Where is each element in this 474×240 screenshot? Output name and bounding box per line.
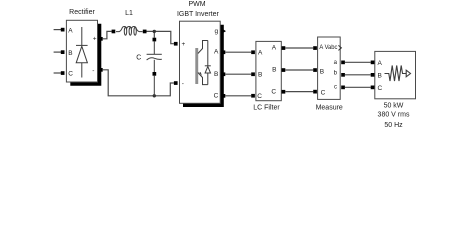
svg-text:L1: L1 <box>125 10 133 17</box>
svg-text:B: B <box>68 50 72 57</box>
svg-text:50 kW: 50 kW <box>384 102 404 109</box>
svg-text:g: g <box>215 28 219 35</box>
svg-text:C: C <box>321 89 326 96</box>
svg-text:A: A <box>378 60 383 67</box>
svg-text:C: C <box>68 71 73 78</box>
svg-text:-: - <box>92 67 94 74</box>
svg-text:IGBT Inverter: IGBT Inverter <box>177 11 220 18</box>
svg-text:Rectifier: Rectifier <box>69 9 95 16</box>
svg-text:C: C <box>136 55 141 62</box>
svg-text:-: - <box>182 81 184 88</box>
svg-text:C: C <box>257 93 262 100</box>
svg-text:Measure: Measure <box>316 105 343 112</box>
svg-text:B: B <box>378 72 382 79</box>
svg-text:B: B <box>272 67 276 74</box>
svg-text:PWM: PWM <box>188 1 205 8</box>
svg-text:B: B <box>258 72 262 79</box>
svg-text:+: + <box>93 36 97 43</box>
svg-text:LC Filter: LC Filter <box>253 104 280 111</box>
svg-text:C: C <box>271 88 276 95</box>
svg-text:c: c <box>334 84 337 90</box>
svg-text:B: B <box>214 71 218 78</box>
svg-text:A Vabc: A Vabc <box>319 45 337 51</box>
svg-text:380 V rms: 380 V rms <box>378 112 410 119</box>
svg-text:A: A <box>214 49 219 56</box>
svg-text:A: A <box>68 27 73 34</box>
svg-text:C: C <box>378 85 383 92</box>
svg-text:50 Hz: 50 Hz <box>384 122 403 129</box>
svg-text:C: C <box>214 93 219 100</box>
svg-text:A: A <box>258 50 263 57</box>
svg-text:B: B <box>320 69 324 76</box>
svg-text:+: + <box>182 41 186 48</box>
svg-text:A: A <box>272 45 277 52</box>
